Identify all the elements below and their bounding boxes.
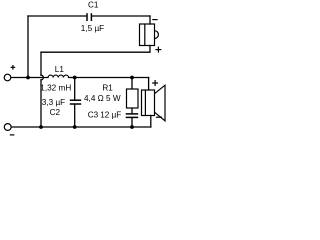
- wire bottom rail: [11, 126, 151, 128]
- svg-text:C2: C2: [50, 108, 61, 117]
- woofer cone: [155, 85, 166, 121]
- wire mid rail after coil: [69, 77, 149, 79]
- node junction dot C (R1 top): [130, 76, 134, 80]
- tweeter speaker body: [140, 24, 159, 46]
- wire C2 branch lower: [74, 104, 76, 127]
- wire tweeter return riser lower: [40, 80, 42, 127]
- svg-text:3,3 µF: 3,3 µF: [42, 98, 65, 107]
- wire C2 branch upper: [74, 78, 76, 101]
- inductor L1: [48, 75, 69, 77]
- wire C3 to bottom rail: [131, 118, 133, 127]
- wire tweeter return riser upper: [40, 52, 42, 75]
- node junction dot B (coil out / C2): [73, 76, 77, 80]
- plus sign tweeter: [155, 47, 161, 53]
- wire woofer bottom: [150, 116, 152, 128]
- wire top rail left segment: [28, 15, 87, 17]
- tweeter dome: [155, 31, 159, 39]
- svg-text:L1: L1: [55, 65, 65, 74]
- wire tweeter feed: [149, 16, 151, 24]
- svg-text:1,32 mH: 1,32 mH: [40, 83, 71, 92]
- capacitor C2: [70, 100, 81, 104]
- svg-text:C1: C1: [88, 1, 99, 10]
- plus sign input: [11, 65, 16, 70]
- node junction dot E (C2 / bottom rail): [73, 125, 77, 129]
- wire tweeter return horizontal: [41, 46, 150, 53]
- node junction dot D (tweeter return / bottom rail): [39, 125, 43, 129]
- input terminal plus: [4, 74, 11, 81]
- svg-text:12 µF: 12 µF: [100, 110, 121, 119]
- resistor R1: [127, 89, 139, 108]
- svg-text:1,5 µF: 1,5 µF: [81, 24, 104, 33]
- input terminal minus: [4, 124, 11, 131]
- capacitor C1: [87, 13, 91, 21]
- wire mid rail: [11, 77, 48, 79]
- node junction dot A (riser/mid rail): [26, 76, 30, 80]
- capacitor C3: [126, 114, 139, 118]
- woofer speaker body: [142, 85, 166, 121]
- plus sign woofer: [152, 80, 158, 86]
- wire woofer feed: [148, 78, 150, 91]
- wire top rail right segment: [92, 15, 150, 17]
- wire R1 branch upper: [131, 78, 133, 90]
- minus sign input: [10, 134, 15, 136]
- node junction dot F (C3 / bottom rail): [130, 125, 134, 129]
- wire left riser: [27, 16, 29, 78]
- svg-text:R1: R1: [102, 84, 113, 93]
- svg-text:C3: C3: [88, 110, 99, 119]
- wire R1 to C3: [131, 108, 133, 114]
- minus sign tweeter: [152, 19, 157, 21]
- wire hop over mid rail: [41, 75, 43, 80]
- minus sign woofer: [156, 116, 162, 118]
- svg-text:4,4 Ω 5 W: 4,4 Ω 5 W: [84, 94, 121, 103]
